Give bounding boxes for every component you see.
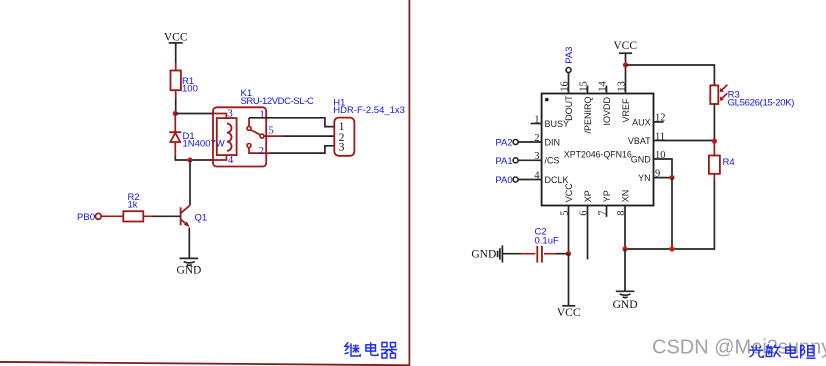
node junction R1/D1 (173, 111, 178, 116)
svg-text:100: 100 (182, 84, 198, 95)
svg-text:5: 5 (560, 211, 571, 216)
svg-text:XP: XP (583, 190, 593, 202)
pin 1 BUSY (531, 114, 569, 129)
svg-text:14: 14 (598, 81, 609, 92)
photoresistor R3 GL5626 (710, 85, 794, 109)
relay K1 SRU-12VDC-SL-C (213, 88, 314, 166)
svg-text:DIN: DIN (545, 137, 561, 147)
svg-text:11: 11 (655, 131, 665, 142)
sheet border diagonal bottom line (0, 362, 410, 365)
port PA2 (495, 138, 518, 149)
svg-text:SRU-12VDC-SL-C: SRU-12VDC-SL-C (241, 96, 314, 107)
pin 7 YP (598, 190, 613, 217)
svg-text:10: 10 (655, 150, 666, 161)
resistor R4 (709, 141, 735, 180)
wire node to Q1 collector (189, 160, 191, 205)
svg-text:2: 2 (259, 146, 264, 157)
svg-text:VCC: VCC (613, 40, 637, 52)
port PA1 (495, 156, 518, 167)
svg-text:0.1uF: 0.1uF (535, 236, 559, 247)
svg-text:15: 15 (579, 81, 590, 92)
svg-text:1N4007W: 1N4007W (183, 139, 225, 150)
svg-text:PA0: PA0 (495, 175, 512, 186)
svg-text:DOUT: DOUT (564, 95, 574, 121)
svg-text:12: 12 (655, 113, 666, 124)
svg-text:/PENIRQ: /PENIRQ (583, 96, 593, 133)
node junction pin5/C2/VCC (566, 251, 571, 256)
relay pin 4 (213, 155, 234, 166)
relay pin 3 (213, 109, 233, 120)
svg-text:VCC: VCC (564, 183, 574, 203)
svg-text:6: 6 (579, 211, 590, 216)
node junction VCC/pin13/R3 (623, 62, 628, 67)
svg-text:3: 3 (228, 109, 233, 120)
pin 11 VBAT (628, 131, 715, 146)
wire R3 to VBAT node (713, 104, 715, 141)
pin 2 DIN (518, 133, 560, 148)
wire VCC to R1 (175, 43, 177, 63)
svg-text:GL5626(15-20K): GL5626(15-20K) (728, 98, 795, 109)
svg-text:GND: GND (471, 249, 496, 261)
sheet border vertical line (408, 0, 410, 366)
svg-text:GND: GND (613, 299, 638, 311)
svg-text:Q1: Q1 (195, 213, 208, 224)
node junction bus/pin10 (669, 246, 674, 251)
wire GND port to C2 (502, 253, 521, 255)
svg-text:CSDN @Mei2sunny: CSDN @Mei2sunny (652, 337, 826, 359)
resistor R2 1k (102, 192, 153, 222)
pin 4 DCLK (518, 170, 568, 185)
port PA0 (495, 175, 518, 186)
pin 16 DOUT (560, 73, 575, 121)
label 继电器 (344, 342, 397, 358)
wire relay pole to H1 pin2 (283, 135, 335, 137)
relay switch pole 5 (251, 126, 283, 139)
pin 12 AUX (632, 113, 665, 128)
pin 13 VREF (617, 65, 632, 123)
wire R1 to node (175, 99, 177, 114)
IC U1 XPT2046-QFN16 body (542, 94, 654, 206)
svg-text:PA1: PA1 (495, 156, 512, 167)
power VCC (bottom) (557, 306, 581, 319)
wire down to bus (671, 178, 673, 249)
pin 6 XP (579, 190, 594, 259)
svg-text:XPT2046-QFN16: XPT2046-QFN16 (564, 150, 632, 160)
pin 9 YN (638, 168, 672, 183)
svg-text:VCC: VCC (164, 32, 188, 44)
pin 14 IOVDD (598, 81, 613, 126)
svg-text:YP: YP (602, 190, 612, 202)
svg-text:VREF: VREF (621, 98, 631, 123)
svg-text:PA3: PA3 (564, 47, 575, 64)
svg-text:IOVDD: IOVDD (602, 96, 612, 125)
capacitor C2 0.1uF (521, 227, 559, 263)
pin 15 /PENIRQ (579, 81, 594, 133)
svg-text:/CS: /CS (545, 156, 560, 166)
power ground bar port GND (left of C2) (471, 245, 502, 262)
svg-text:13: 13 (617, 81, 628, 92)
svg-text:4: 4 (534, 170, 540, 181)
wire R4 to bus (625, 180, 715, 249)
power VCC (left) (164, 32, 188, 44)
relay switch contact 2 (247, 144, 270, 158)
power VCC (top right) (613, 40, 637, 65)
svg-text:AUX: AUX (632, 117, 651, 127)
svg-text:8: 8 (616, 211, 627, 216)
node junction D1/relay/Q1 (187, 157, 192, 162)
ground GND (left) (176, 258, 201, 276)
diode D1 1N4007W (169, 114, 224, 156)
svg-text:1: 1 (534, 114, 539, 125)
transistor Q1 (181, 205, 208, 258)
relay coil box (217, 118, 237, 155)
port PA3 (564, 47, 575, 73)
svg-text:VBAT: VBAT (628, 136, 651, 146)
svg-text:HDR-F-2.54_1x3: HDR-F-2.54_1x3 (333, 105, 405, 116)
svg-text:VCC: VCC (557, 307, 581, 319)
ground GND (right) (613, 291, 638, 311)
svg-text:R4: R4 (723, 157, 735, 168)
svg-text:16: 16 (560, 81, 571, 92)
node junction pin8/bus (622, 246, 627, 251)
wire C2 to pin5 node (556, 253, 569, 255)
pin 8 XN (616, 190, 631, 249)
pin 5 VCC (560, 183, 575, 254)
svg-text:XN: XN (621, 190, 631, 203)
svg-text:PA2: PA2 (495, 138, 512, 149)
svg-text:GND: GND (176, 265, 201, 277)
node junction pin9/pin10 (669, 175, 674, 180)
label 光敏电阻 (749, 344, 815, 358)
port PB0 (77, 212, 101, 223)
svg-text:3: 3 (339, 140, 345, 154)
wire pin8 to GND (624, 249, 626, 291)
pin 10 GND (631, 150, 672, 178)
wire relay pin2 to H1 pin3 (270, 146, 334, 153)
wire node to relay coil pin3 (175, 113, 213, 115)
resistor R1 (171, 63, 198, 99)
svg-text:7: 7 (598, 211, 609, 216)
svg-text:1k: 1k (128, 200, 138, 211)
svg-text:GND: GND (631, 155, 652, 165)
wire pin5 node to VCC bottom (568, 254, 570, 306)
wire relay pin1 to H1 pin1 (249, 118, 334, 127)
svg-text:4: 4 (228, 155, 234, 166)
wire base (153, 215, 181, 217)
svg-text:PB0: PB0 (77, 212, 95, 223)
node junction R3/R4/VBAT (712, 138, 717, 143)
svg-text:YN: YN (638, 173, 651, 183)
pin 3 /CS (518, 151, 559, 166)
wire D1 to bottom node (175, 155, 213, 160)
svg-text:5: 5 (269, 126, 274, 137)
svg-text:3: 3 (534, 151, 539, 162)
svg-text:9: 9 (655, 168, 660, 179)
svg-text:2: 2 (534, 133, 539, 144)
wire VCC node to R3 (626, 65, 715, 85)
relay switch contact 1 (247, 109, 265, 130)
connector H1 HDR-F-2.54_1x3 (333, 98, 405, 156)
